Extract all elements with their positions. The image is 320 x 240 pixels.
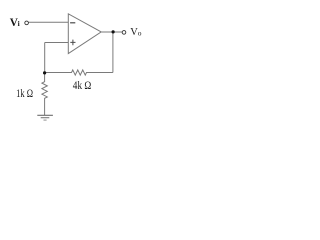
svg-text:Vo: Vo [130, 27, 141, 38]
svg-text:Vi: Vi [10, 17, 20, 29]
svg-text:4k Ω: 4k Ω [73, 78, 92, 92]
svg-text:1k Ω: 1k Ω [16, 86, 33, 100]
